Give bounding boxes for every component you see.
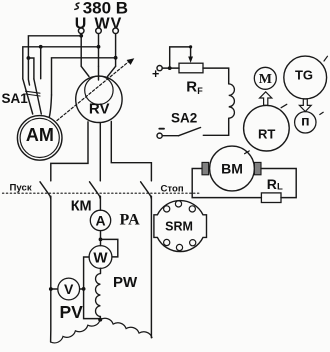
inductor field coil	[229, 84, 235, 118]
SRM pole winding top center	[175, 201, 181, 207]
meter M	[254, 67, 276, 89]
boundary dotted line	[3, 192, 201, 194]
svg-text:TG: TG	[295, 68, 313, 83]
wire RV bottom right to KM3	[111, 122, 151, 181]
wire V branch left	[52, 58, 116, 95]
wire PV left	[51, 288, 58, 290]
shaft dash П right	[320, 112, 323, 114]
stepper SRM body	[154, 201, 207, 252]
node W junction	[97, 45, 101, 49]
svg-text:PW: PW	[113, 274, 138, 291]
SRM pole winding top right	[189, 206, 195, 212]
resistor RL	[261, 193, 281, 203]
contact KM pole 1	[40, 182, 51, 199]
wire minus to blade	[162, 135, 178, 137]
shaft dash TG top	[324, 56, 328, 61]
SRM pole winding top left	[164, 206, 170, 212]
wire SA1 fixed contact pole 2	[28, 58, 29, 85]
label RL	[267, 176, 283, 192]
arrowhead RF slider	[188, 57, 193, 63]
tachogenerator TG	[284, 56, 327, 99]
wire U jog to blade B	[28, 58, 34, 79]
svg-text:Пуск: Пуск	[10, 182, 32, 193]
wire W vertical to RV	[98, 34, 100, 67]
wire PA to W	[100, 231, 102, 246]
svg-text:RV: RV	[89, 100, 110, 117]
wire KM3 down	[150, 196, 152, 338]
svg-text:V: V	[64, 281, 74, 297]
shaft dash RT-TG	[281, 104, 287, 107]
svg-text:A: A	[95, 212, 105, 228]
svg-text:R: R	[267, 176, 277, 192]
winding right scallops	[100, 318, 152, 337]
svg-text:W: W	[93, 250, 108, 267]
terminal plus	[157, 66, 162, 71]
svg-text:RT: RT	[258, 127, 275, 142]
wire RV input middle	[98, 66, 100, 80]
wire RV bottom left to KM1	[51, 122, 88, 181]
switch SA1 crossbar	[26, 91, 41, 96]
wire plus to RF	[162, 67, 179, 69]
wire V vertical to RV	[115, 34, 117, 67]
regulator RT	[244, 105, 290, 151]
terminal minus	[157, 133, 162, 138]
wire coil to SA2	[203, 118, 228, 135]
svg-text:SA1: SA1	[2, 91, 29, 106]
node U split	[27, 56, 31, 60]
terminal U	[78, 28, 84, 34]
wire U vertical to RV	[80, 34, 82, 67]
switch SA2 blade	[179, 128, 201, 136]
node star point	[98, 318, 102, 322]
wire W branch left	[23, 47, 99, 79]
wire SA1 fixed contact pole 3	[40, 47, 42, 79]
svg-text:BM: BM	[221, 161, 243, 177]
wire RF slider top	[170, 47, 191, 68]
node V right junction	[82, 287, 86, 291]
wire W current loop	[101, 239, 118, 257]
label minus	[159, 128, 164, 130]
wire W left to voltage column	[84, 257, 101, 319]
svg-text:SRM: SRM	[165, 220, 193, 234]
shaft dash BM-RT	[245, 151, 250, 154]
wire SA1 blade B to AM	[34, 79, 41, 114]
wire RV input right slant	[108, 66, 116, 76]
wire V to AM right	[49, 95, 51, 117]
wire SA1 blade A to AM	[23, 79, 33, 114]
ammeter PA	[90, 210, 110, 230]
node slider corner	[189, 45, 192, 48]
brush left	[202, 162, 209, 174]
terminal W	[96, 28, 102, 34]
contact KM pole 2	[90, 182, 101, 199]
inductor PW coil	[96, 274, 101, 317]
brush right	[254, 162, 261, 174]
svg-text:КМ: КМ	[71, 199, 92, 215]
svg-text:п: п	[301, 113, 309, 129]
voltmeter PV meter	[58, 278, 80, 300]
label RF	[186, 79, 203, 96]
wire RV input left slant	[81, 66, 89, 76]
SRM pole winding bottom left	[164, 239, 170, 245]
SRM pole winding bottom right	[190, 240, 196, 246]
SRM pole winding bottom center	[176, 244, 182, 250]
regulator RV	[76, 76, 122, 123]
svg-text:+: +	[152, 67, 159, 81]
svg-text:F: F	[197, 86, 203, 96]
machine BM	[210, 146, 255, 191]
svg-text:M: M	[259, 72, 272, 87]
node plus junction	[168, 66, 172, 70]
node below PA	[99, 238, 103, 242]
svg-text:PA: PA	[120, 212, 141, 229]
contact KM pole 3	[141, 182, 152, 199]
wire RV bottom middle to KM2	[99, 123, 101, 181]
wire RF to field coil	[203, 68, 229, 84]
svg-text:SA2: SA2	[171, 111, 197, 126]
wire KM2 to PA	[99, 196, 101, 210]
wire KM1 down	[50, 196, 52, 342]
node V junction	[114, 56, 118, 60]
motor AM	[17, 116, 62, 161]
node PV left junction	[49, 287, 53, 291]
winding left scallops	[51, 320, 101, 343]
arrow RT to M	[260, 92, 272, 105]
wire U branch left	[28, 36, 81, 58]
wire W bottom to coil	[100, 268, 102, 273]
wire PV right	[80, 288, 84, 290]
wire BM left to RL	[192, 169, 261, 198]
label ~ (AC symbol)	[75, 3, 79, 9]
resistor RF	[179, 63, 203, 73]
arrow TG to П	[299, 99, 311, 112]
arrow adjustment dashed through RV	[57, 58, 134, 120]
indicator П	[295, 112, 316, 133]
node W split	[39, 45, 43, 49]
svg-text:AM: AM	[26, 125, 54, 145]
wattmeter PW meter	[89, 246, 112, 269]
wire coil to star node	[99, 317, 101, 320]
wire RL to BM right	[261, 169, 296, 198]
node U junction	[79, 34, 83, 38]
svg-text:R: R	[186, 79, 197, 96]
svg-text:Стоп: Стоп	[161, 183, 184, 194]
svg-text:PV: PV	[60, 302, 84, 322]
svg-text:L: L	[277, 181, 283, 192]
svg-text:W: W	[94, 15, 110, 32]
terminal V	[113, 28, 119, 34]
